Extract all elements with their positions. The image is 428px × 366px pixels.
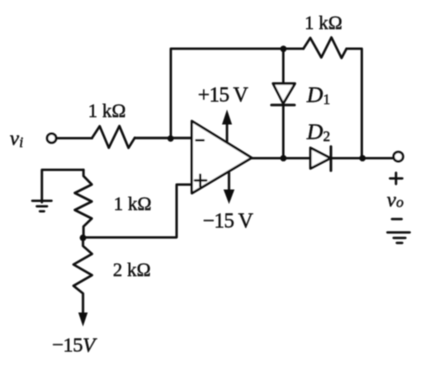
junction node E (divider tap): [80, 235, 87, 242]
wire R1 to op-amp inverting input: [135, 137, 192, 139]
wire R4 to right vertical drop: [347, 49, 362, 159]
op-amp U1 triangle: [192, 121, 252, 193]
label 1 kOhm (R2): [114, 194, 152, 215]
wire top node B to R4: [283, 48, 303, 50]
junction node D (feedback drop to output line): [359, 155, 365, 161]
ground (right, below vo): [387, 232, 409, 243]
wire input terminal to R1: [57, 137, 92, 139]
node vi label: [10, 126, 23, 151]
svg-text:1 kΩ: 1 kΩ: [88, 101, 126, 122]
output minus sign: [392, 218, 402, 220]
input terminal (open circle): [47, 134, 56, 143]
junction node C (D1 to output line): [280, 155, 286, 161]
wire node B down to D1 anode: [282, 49, 284, 84]
node vo label: [387, 188, 404, 212]
label -15 V: [203, 208, 253, 232]
wire feedback vertical riser: [171, 49, 284, 138]
svg-text:1 kΩ: 1 kΩ: [114, 194, 152, 215]
output terminal (open circle): [394, 152, 403, 161]
+15 V supply arrow (up): [222, 110, 232, 142]
label +15 V: [198, 83, 248, 107]
label 2 kOhm (R3): [113, 260, 151, 281]
wire ground to R2 top: [42, 170, 84, 203]
-15 V supply arrow (down): [224, 173, 235, 205]
-15V supply arrow (down, divider): [78, 313, 87, 327]
resistor R2 1 kOhm (vertical): [75, 170, 92, 238]
output plus sign: [390, 173, 402, 184]
wire op-amp output to D2 anode: [252, 157, 311, 159]
junction node A (inverting input): [167, 135, 173, 141]
label D2: [306, 119, 331, 145]
op-amp inverting input minus sign: [196, 139, 203, 141]
resistor R1 1 kOhm (input): [92, 126, 135, 148]
svg-text:2 kΩ: 2 kΩ: [113, 260, 151, 281]
diode D1 (vertical, cathode down): [272, 84, 296, 106]
label D1: [306, 82, 331, 108]
diode D2 (horizontal, cathode right): [310, 147, 331, 171]
resistor R4 1 kOhm (feedback): [303, 37, 346, 58]
op-amp noninverting input plus sign: [195, 175, 206, 187]
label 1 kOhm (feedback resistor): [305, 13, 343, 34]
ground (left): [32, 201, 51, 212]
svg-text:−15 V: −15 V: [203, 208, 253, 232]
junction node B (top, D1 branch): [280, 46, 286, 52]
svg-text:1 kΩ: 1 kΩ: [305, 13, 343, 34]
wire D1 cathode to output line: [282, 105, 284, 158]
label 1 kOhm (input resistor): [88, 101, 126, 122]
svg-text:+15 V: +15 V: [198, 83, 248, 107]
svg-text:−15V: −15V: [52, 335, 98, 357]
label -15V (divider): [52, 335, 98, 357]
wire divider tap to op-amp noninverting input: [83, 185, 192, 238]
resistor R3 2 kOhm (vertical): [74, 238, 93, 313]
wire D2 cathode to output terminal: [331, 157, 393, 159]
